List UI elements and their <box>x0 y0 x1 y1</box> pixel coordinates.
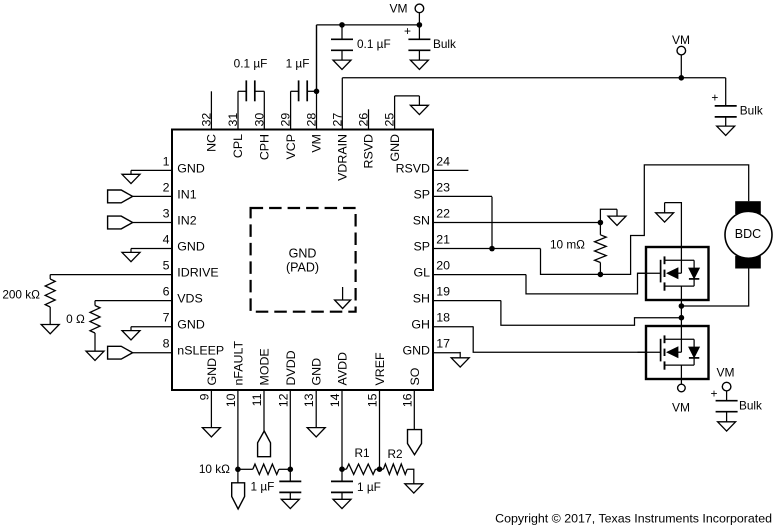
svg-text:nSLEEP: nSLEEP <box>177 344 224 358</box>
svg-text:1: 1 <box>163 154 170 168</box>
svg-text:+: + <box>404 24 411 38</box>
junction SH motor <box>679 303 685 309</box>
ground at pin 4 <box>130 249 132 253</box>
svg-text:Bulk: Bulk <box>739 399 762 413</box>
capacitor 1 uF VCP-VM <box>291 90 299 92</box>
pin 9 GND (bottom) <box>197 358 219 428</box>
svg-text:+: + <box>710 386 717 400</box>
svg-text:12: 12 <box>276 393 290 407</box>
svg-text:11: 11 <box>250 393 264 406</box>
svg-text:GND: GND <box>388 134 402 162</box>
svg-text:IN1: IN1 <box>177 187 196 201</box>
wire GH to Q2 gate <box>473 326 646 352</box>
pin 26 RSVD (top) <box>357 109 376 168</box>
svg-text:26: 26 <box>357 113 371 127</box>
capacitor 0.1 uF CPL-CPH <box>238 90 246 92</box>
svg-text:3: 3 <box>163 207 170 221</box>
pin 27 VDRAIN (top) <box>330 78 349 181</box>
svg-text:(PAD): (PAD) <box>286 261 319 275</box>
pin 2 IN1 (left) <box>133 180 197 201</box>
input tag IN1 <box>108 190 133 203</box>
svg-text:30: 30 <box>252 113 266 127</box>
svg-text:14: 14 <box>328 393 342 407</box>
input tag MODE <box>258 431 271 457</box>
pin 22 SN (right) <box>413 207 601 228</box>
svg-text:6: 6 <box>163 285 170 299</box>
svg-text:1 µF: 1 µF <box>286 57 310 71</box>
junction AVDD <box>339 466 345 472</box>
svg-text:9: 9 <box>197 393 211 400</box>
pin 28 VM (top) <box>305 25 324 153</box>
wire SP pin23 down <box>491 197 493 249</box>
svg-text:R2: R2 <box>387 447 402 461</box>
capacitor 1 uF AVDD <box>331 480 353 482</box>
svg-text:Copyright © 2017, Texas Instru: Copyright © 2017, Texas Instruments Inco… <box>495 512 772 526</box>
resistor R2 <box>380 468 384 470</box>
svg-text:0.1 µF: 0.1 µF <box>234 57 268 71</box>
input tag IN2 <box>108 216 133 229</box>
svg-text:AVDD: AVDD <box>336 352 350 386</box>
pin 23 SP (right) <box>413 180 492 201</box>
pin 15 VREF (bottom) <box>366 352 388 469</box>
svg-text:31: 31 <box>226 113 240 127</box>
ground at pin 13 <box>307 428 325 437</box>
wire VDRAIN rail down to bulk <box>725 78 727 106</box>
svg-text:MODE: MODE <box>258 348 272 385</box>
svg-text:4: 4 <box>163 233 170 247</box>
svg-text:20: 20 <box>436 259 450 273</box>
pin 6 VDS (left) <box>95 285 203 306</box>
svg-text:VDRAIN: VDRAIN <box>336 134 350 181</box>
pin 13 GND (bottom) <box>302 358 324 428</box>
svg-text:Bulk: Bulk <box>433 37 456 51</box>
pin 16 SO (bottom) <box>400 367 422 429</box>
svg-text:32: 32 <box>199 113 213 127</box>
junction VM rail / 0.1uF <box>339 22 345 28</box>
pin 25 GND (top) <box>383 96 402 162</box>
ground at SN node <box>600 209 617 222</box>
svg-text:BDC: BDC <box>735 227 761 241</box>
svg-text:1 µF: 1 µF <box>357 480 381 494</box>
pin 14 AVDD (bottom) <box>328 352 350 481</box>
svg-text:GND: GND <box>177 240 205 254</box>
svg-text:22: 22 <box>436 207 450 221</box>
pin 17 GND (right) <box>402 337 460 358</box>
svg-text:+: + <box>711 91 718 105</box>
svg-text:0 Ω: 0 Ω <box>66 312 85 326</box>
svg-text:VREF: VREF <box>373 352 387 385</box>
svg-text:DVDD: DVDD <box>284 350 298 385</box>
svg-text:GND: GND <box>177 161 205 175</box>
svg-text:SP: SP <box>413 187 430 201</box>
ground at pin 7 <box>130 327 132 331</box>
resistor R1 <box>342 468 346 470</box>
svg-text:28: 28 <box>305 113 319 127</box>
capacitor 0.1 uF VM <box>341 25 343 39</box>
svg-text:IN2: IN2 <box>177 214 196 228</box>
transistor Q2 (lower FET) <box>638 326 709 379</box>
VDRAIN wire to VM terminal <box>342 77 725 79</box>
pin 31 CPL (top) <box>226 91 245 158</box>
svg-text:RSVD: RSVD <box>362 134 376 168</box>
svg-text:0.1 µF: 0.1 µF <box>357 37 391 51</box>
svg-text:nFAULT: nFAULT <box>231 341 245 386</box>
capacitor 1 uF DVDD <box>279 480 301 482</box>
junction VREF <box>377 466 383 472</box>
pin 3 IN2 (left) <box>133 207 197 228</box>
svg-text:VM: VM <box>390 2 408 16</box>
svg-text:IDRIVE: IDRIVE <box>177 266 218 280</box>
svg-text:VM: VM <box>672 400 690 414</box>
junction VM rail / bulk <box>417 22 423 28</box>
svg-text:SH: SH <box>413 292 430 306</box>
pin 8 nSLEEP (left) <box>133 337 225 358</box>
svg-text:8: 8 <box>163 337 170 351</box>
svg-text:R1: R1 <box>354 446 369 460</box>
VM vertical wire to top rail <box>316 25 318 91</box>
motor BDC <box>735 201 761 214</box>
ground at pin 1 <box>130 170 132 174</box>
ground at pin 25 <box>395 95 420 97</box>
junction SN / Rsense top <box>598 220 604 226</box>
pin 32 NC (top) <box>199 91 218 152</box>
pin 21 SP (right) <box>413 233 540 254</box>
pin 18 GH (right) <box>411 311 473 332</box>
junction SH pin19 <box>679 315 685 321</box>
svg-text:SO: SO <box>408 367 422 385</box>
pin 10 nFAULT (bottom) <box>224 341 246 483</box>
pin 20 GL (right) <box>413 259 526 280</box>
svg-text:200 kΩ: 200 kΩ <box>2 288 40 302</box>
svg-text:GND: GND <box>310 358 324 386</box>
svg-text:VDS: VDS <box>177 292 202 306</box>
svg-text:VM: VM <box>310 134 324 153</box>
svg-text:SP: SP <box>413 240 430 254</box>
svg-text:16: 16 <box>400 393 414 407</box>
resistor 10 kOhm <box>238 468 253 470</box>
svg-text:5: 5 <box>163 259 170 273</box>
output tag nFAULT <box>232 483 245 509</box>
VM top rail wire <box>317 24 420 26</box>
svg-text:GND: GND <box>289 247 317 261</box>
svg-text:15: 15 <box>366 393 380 407</box>
ground at pin 17 <box>459 352 461 358</box>
junction SP / Rsense bottom <box>598 272 604 278</box>
thermal pad dashed box <box>251 208 356 312</box>
wire motor to SH <box>681 269 748 307</box>
svg-text:13: 13 <box>302 393 316 407</box>
terminal VM below Q2 <box>680 379 682 384</box>
pin 11 MODE (bottom) <box>250 348 272 431</box>
pin 19 SH (right) <box>413 285 501 306</box>
svg-text:GND: GND <box>402 344 430 358</box>
svg-text:29: 29 <box>279 113 293 127</box>
svg-text:SN: SN <box>413 214 430 228</box>
junction VDRAIN / VM terminal <box>679 75 685 81</box>
svg-text:24: 24 <box>436 154 450 168</box>
wire SP pin21 to sense <box>541 249 601 275</box>
svg-text:CPH: CPH <box>258 134 272 160</box>
svg-text:10 kΩ: 10 kΩ <box>199 462 230 476</box>
pin 30 CPH (top) <box>252 91 271 160</box>
IC body outline U1 <box>172 130 433 391</box>
resistor 200 k&#937; <box>49 275 51 279</box>
output tag SO <box>408 430 422 455</box>
svg-text:10: 10 <box>224 393 238 407</box>
svg-text:21: 21 <box>436 233 450 247</box>
pin 29 VCP (top) <box>279 91 298 159</box>
svg-text:19: 19 <box>436 285 450 299</box>
svg-text:Bulk: Bulk <box>740 104 763 118</box>
ground at Q1 top <box>665 203 682 247</box>
pin 12 DVDD (bottom) <box>276 350 298 481</box>
svg-text:GND: GND <box>177 318 205 332</box>
pin 1 GND (left) <box>131 154 205 175</box>
pin 4 GND (left) <box>131 233 205 254</box>
pad ground arrow <box>342 287 344 300</box>
input tag nSLEEP <box>108 346 133 359</box>
wire GL to Q1 gate <box>526 273 646 294</box>
pin 5 IDRIVE (left) <box>50 259 218 280</box>
wire SH to node <box>501 301 682 326</box>
junction nFAULT <box>235 467 241 473</box>
svg-text:25: 25 <box>383 113 397 127</box>
svg-text:NC: NC <box>205 134 219 152</box>
svg-text:RSVD: RSVD <box>396 161 430 175</box>
resistor 0 &#937; <box>94 301 96 306</box>
svg-text:2: 2 <box>163 180 170 194</box>
svg-text:VCP: VCP <box>284 134 298 159</box>
svg-text:GND: GND <box>205 358 219 386</box>
junction pin28-1uF <box>314 89 320 95</box>
ground at pin 9 <box>202 428 220 437</box>
svg-text:10 mΩ: 10 mΩ <box>550 238 585 252</box>
svg-text:7: 7 <box>163 311 170 325</box>
svg-text:CPL: CPL <box>231 134 245 158</box>
svg-text:17: 17 <box>436 337 450 351</box>
junction SP pins <box>489 246 495 252</box>
svg-text:GL: GL <box>413 266 430 280</box>
pin 24 RSVD (right) <box>396 154 469 175</box>
svg-text:27: 27 <box>330 113 344 127</box>
pin 7 GND (left) <box>131 311 205 332</box>
svg-text:VM: VM <box>672 33 690 47</box>
svg-text:GH: GH <box>411 318 430 332</box>
svg-text:VM: VM <box>717 366 735 380</box>
node SH wire Q1-Q2 <box>680 300 682 326</box>
svg-text:23: 23 <box>436 180 450 194</box>
transistor Q1 (upper FET) <box>638 247 709 300</box>
resistor 10 mOhm Rsense <box>599 223 601 235</box>
svg-text:18: 18 <box>436 311 450 325</box>
svg-text:1 µF: 1 µF <box>251 480 275 494</box>
wire Rsense to motor <box>600 165 748 275</box>
junction DVDD <box>288 467 294 473</box>
